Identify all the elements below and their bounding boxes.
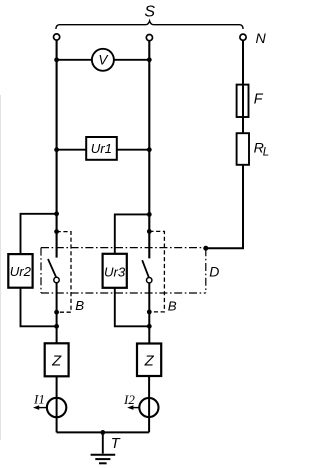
svg-text:D: D: [209, 264, 219, 280]
svg-text:Z: Z: [144, 353, 155, 369]
svg-text:Ur2: Ur2: [10, 264, 32, 279]
svg-text:Z: Z: [51, 353, 62, 369]
svg-text:N: N: [256, 31, 267, 47]
svg-text:Ur3: Ur3: [104, 264, 126, 279]
svg-text:Ur1: Ur1: [91, 141, 112, 156]
svg-text:I1: I1: [33, 392, 45, 407]
svg-text:B: B: [168, 298, 177, 313]
svg-text:I2: I2: [123, 392, 135, 407]
svg-text:T: T: [111, 436, 121, 452]
svg-text:F: F: [254, 92, 264, 108]
svg-text:S: S: [144, 4, 155, 21]
svg-text:B: B: [75, 298, 84, 313]
svg-text:L: L: [263, 147, 269, 159]
